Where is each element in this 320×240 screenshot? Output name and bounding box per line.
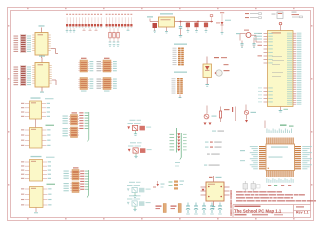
header bank JP2: [106, 14, 133, 28]
IC4 opto-relay: [201, 176, 230, 208]
diode D1 at regulator input: [147, 16, 159, 32]
resistors R1-R3 under JP2: [109, 28, 130, 46]
diode bridge D3: [203, 57, 227, 87]
title block borders: [233, 205, 311, 217]
resistor network RN3: [78, 78, 93, 92]
capacitors C7-C9 row: [186, 203, 222, 215]
IC2 right pins with net labels: [287, 33, 301, 105]
wire U1 output: [51, 49, 58, 54]
net wire bus right: [87, 195, 89, 198]
spare gate fragment C: [292, 12, 303, 18]
capacitor C1 on 5V rail: [178, 21, 214, 37]
transistor Q3: [204, 106, 217, 126]
resistor network RN5: [63, 112, 79, 125]
resistor R4 cluster: [219, 107, 235, 123]
capacitor C5 (electrolytic): [156, 204, 167, 213]
LED LED1: [215, 64, 230, 76]
microcontroller IC2 body: [268, 22, 294, 112]
pin labels right of J1: [27, 36, 31, 52]
capacitor C6 (electrolytic): [171, 204, 182, 213]
svg-text:Rev 1.1: Rev 1.1: [296, 211, 309, 215]
op-amp U3: [21, 97, 54, 119]
net label stack B (bus): [80, 170, 88, 195]
op-amp U6: [21, 184, 55, 214]
IC3 left pins with labels: [250, 146, 266, 169]
resistor network RN1: [78, 58, 93, 72]
IC U2: [32, 55, 52, 92]
IC2 left pins upper: [254, 33, 273, 64]
net labels vertical right of caps: [231, 190, 232, 216]
capacitors C2 C3 (polarized): [186, 22, 199, 33]
pin header JP3: [173, 44, 188, 66]
op-amp U4: [21, 119, 54, 148]
VCC symbol on rail: [210, 15, 213, 22]
resistor network RN2: [97, 58, 117, 72]
voltage regulator IC5: [159, 13, 178, 33]
spare gate fragment B: [272, 12, 284, 19]
title text: [234, 208, 282, 213]
resistor network RN4: [97, 78, 117, 92]
net labels left of J2: [14, 67, 19, 86]
connector J1: [21, 35, 26, 53]
sheet revision cell: [296, 206, 309, 214]
opto coupler OK4: [127, 195, 151, 211]
spare gate fragment A: [245, 13, 262, 19]
resistor network RN8: [64, 182, 81, 193]
svg-text:The School PC Map 1.1: The School PC Map 1.1: [234, 208, 282, 213]
jumper JP5: [169, 181, 185, 190]
IC3 top pins: [266, 138, 293, 145]
op-amp U5: [21, 156, 55, 181]
configuration notes text: [204, 131, 224, 166]
IC3 QFP body: [266, 144, 295, 171]
net labels below ladder: [175, 162, 180, 167]
opto coupler OK1: [127, 120, 151, 136]
capacitors under JP1: [66, 28, 98, 32]
diode ladder D4-D9: [170, 128, 187, 160]
resistor network RN6: [63, 127, 79, 138]
header bank JP1: [66, 14, 102, 28]
connector J2: [21, 66, 26, 86]
diode D10: [153, 181, 165, 188]
IC3 right pins with labels: [295, 146, 312, 169]
resistor network RN7: [64, 167, 81, 180]
crystal Q1 with load capacitors: [236, 30, 262, 48]
wire U2 output: [52, 80, 56, 85]
opto coupler OK3: [127, 182, 151, 198]
IC3 side nets: [240, 150, 245, 161]
net labels left of J1: [14, 36, 19, 53]
title block date row: [235, 214, 284, 215]
IC3 bottom pins: [266, 171, 293, 187]
pin labels right of J2: [27, 67, 31, 86]
board notes text: [236, 191, 316, 201]
decoupling caps C10 C11: [243, 181, 260, 191]
opto coupler OK2: [128, 142, 152, 158]
title block small heading: [235, 206, 261, 207]
IC3 top pin labels: [265, 121, 294, 134]
capacitor C4: [204, 22, 208, 33]
transistor Q2: [244, 105, 256, 123]
IC U1: [32, 25, 51, 58]
pin header JP4: [172, 72, 188, 98]
IC2 left pins lower: [258, 87, 273, 102]
zener diode D2: [216, 12, 231, 34]
IC2 internal text: [272, 56, 284, 77]
net label stack A (bus): [79, 112, 89, 142]
